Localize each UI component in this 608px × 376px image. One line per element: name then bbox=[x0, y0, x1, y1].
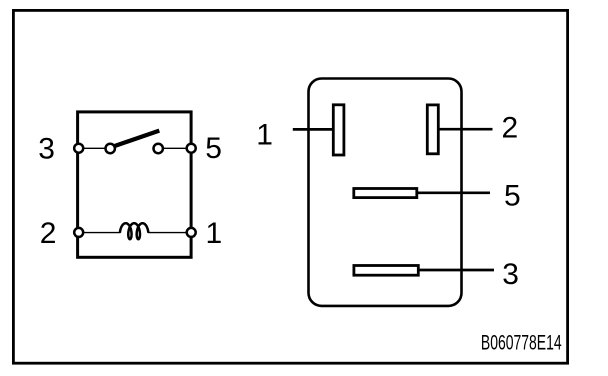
switch arm bbox=[113, 131, 159, 147]
pin 1 lead line bbox=[293, 128, 333, 131]
svg-text:2: 2 bbox=[40, 217, 57, 250]
svg-text:3: 3 bbox=[502, 258, 519, 291]
svg-text:5: 5 bbox=[504, 179, 521, 212]
wire bbox=[148, 232, 186, 234]
pin 3 lead line bbox=[418, 269, 494, 272]
svg-text:B060778E14: B060778E14 bbox=[481, 332, 562, 355]
pin 1 slot bbox=[333, 105, 344, 155]
svg-text:1: 1 bbox=[256, 118, 273, 151]
terminal 1 contact circle bbox=[187, 228, 196, 237]
pin 2 lead line bbox=[439, 128, 493, 131]
connector body outline bbox=[309, 79, 462, 306]
pin 2 slot bbox=[427, 105, 438, 154]
wire bbox=[84, 232, 121, 234]
svg-text:1: 1 bbox=[206, 217, 223, 250]
pin 5 slot bbox=[354, 189, 417, 198]
relay coil L bbox=[120, 223, 148, 239]
pin 3 slot bbox=[354, 266, 418, 276]
svg-text:3: 3 bbox=[38, 132, 55, 165]
svg-text:5: 5 bbox=[205, 132, 222, 165]
svg-text:2: 2 bbox=[502, 111, 519, 144]
terminal 5 contact circle bbox=[187, 144, 196, 153]
wire bbox=[84, 147, 105, 149]
relay body box bbox=[78, 112, 192, 257]
wire bbox=[164, 147, 186, 149]
switch fixed contact circle bbox=[154, 144, 163, 153]
terminal 2 contact circle bbox=[74, 228, 83, 237]
terminal 3 contact circle bbox=[74, 144, 83, 153]
pin 5 lead line bbox=[417, 191, 490, 194]
switch pivot contact circle bbox=[106, 144, 115, 153]
